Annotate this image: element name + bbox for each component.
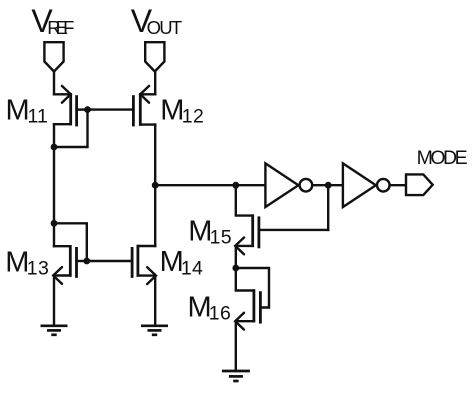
svg-text:11: 11 xyxy=(28,106,48,128)
wire M13 source to ground xyxy=(53,276,55,325)
wire U1 output to U2 input xyxy=(312,184,343,186)
inverter U2 xyxy=(343,163,390,207)
ground under M14 xyxy=(141,326,168,335)
node M15 source / M16 drain-gate xyxy=(232,265,239,272)
transistor M15 xyxy=(235,214,328,254)
label M12 xyxy=(160,95,204,128)
svg-text:M: M xyxy=(6,95,30,127)
svg-text:OUT: OUT xyxy=(147,17,183,38)
node U1 output xyxy=(325,182,332,189)
label M16 xyxy=(188,291,231,324)
wire comparator output to inverter input xyxy=(155,184,265,186)
node M11 source rail xyxy=(51,144,58,151)
svg-text:MODE: MODE xyxy=(417,147,468,169)
svg-text:REF: REF xyxy=(47,17,74,38)
inverter U1 xyxy=(265,163,312,207)
wire M16 drain lead xyxy=(236,268,254,291)
node left rail M13 gate tap xyxy=(51,220,58,227)
node M15 drain tap xyxy=(232,182,239,189)
label M15 xyxy=(188,215,231,248)
wire node to M15 drain xyxy=(236,185,253,215)
node gate M13-M14 xyxy=(83,258,90,265)
transistor M12 xyxy=(88,86,156,127)
port V_REF xyxy=(44,42,63,71)
port MODE xyxy=(406,174,433,195)
wire hysteresis feedback to M15 gate xyxy=(327,185,329,230)
node comparator output xyxy=(152,182,159,189)
ground under M13 xyxy=(41,326,68,335)
wire left rail M11 source to M13 drain xyxy=(53,124,55,246)
transistor M14 xyxy=(132,245,156,284)
label M11 xyxy=(6,95,48,128)
svg-text:16: 16 xyxy=(209,303,231,325)
svg-text:14: 14 xyxy=(181,258,203,280)
wire V_OUT port to M12 drain xyxy=(154,72,156,95)
wire U2 output to MODE port xyxy=(390,184,406,186)
wire M12 drain to M14 drain xyxy=(154,125,156,246)
label V_OUT xyxy=(131,3,183,39)
wire M16 diode connection loop xyxy=(236,268,269,308)
svg-text:M: M xyxy=(160,95,184,127)
wire V_REF port to M11 drain xyxy=(53,72,55,95)
wire gate line M13 to M14 xyxy=(87,260,132,262)
wire M16 source to ground xyxy=(235,321,237,370)
wire M15 source to M16 drain xyxy=(235,246,237,268)
transistor M13 xyxy=(53,245,87,284)
ground under M16 xyxy=(222,371,250,381)
label M13 xyxy=(5,247,49,280)
svg-text:15: 15 xyxy=(210,227,232,249)
label V_REF xyxy=(31,3,74,39)
svg-text:12: 12 xyxy=(182,106,204,128)
wire M14 source to ground xyxy=(154,276,156,325)
label M14 xyxy=(160,246,203,280)
node gate M11-M12 xyxy=(84,106,91,113)
svg-text:13: 13 xyxy=(27,258,49,280)
port V_OUT xyxy=(145,42,164,71)
transistor M11 xyxy=(54,86,88,127)
svg-text:M: M xyxy=(5,247,29,279)
wire M13 diode connection (drain to gate loop) xyxy=(54,223,87,261)
transistor M16 xyxy=(235,289,260,329)
wire M11 diode connection (gate to drain loop) xyxy=(54,110,88,147)
